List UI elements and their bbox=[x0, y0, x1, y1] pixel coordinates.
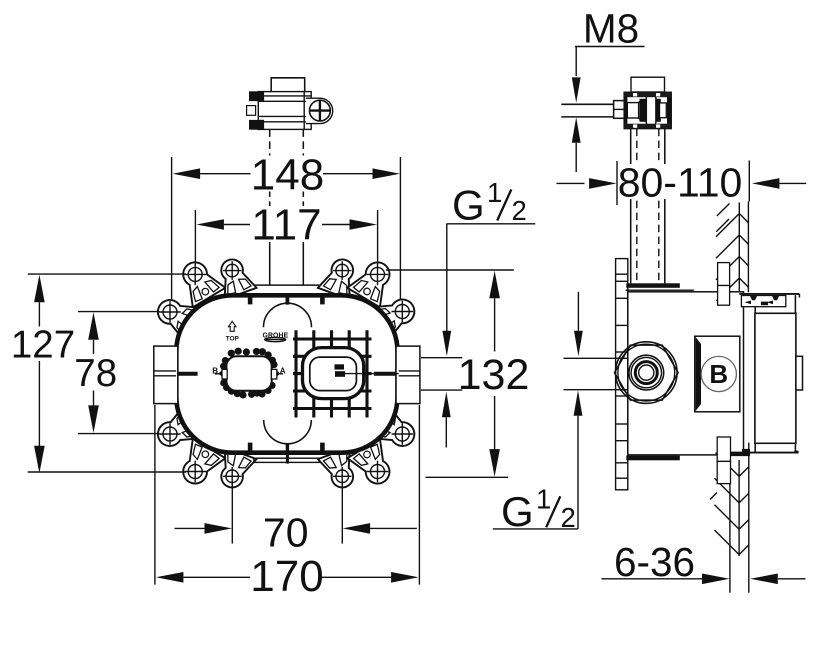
svg-text:B: B bbox=[709, 359, 728, 389]
svg-text:1: 1 bbox=[487, 177, 502, 208]
front housing notch bbox=[796, 356, 803, 390]
bracket above clamp bbox=[631, 77, 665, 92]
clamp screw phillips head bbox=[310, 100, 331, 121]
svg-text:TOP: TOP bbox=[226, 336, 240, 343]
SIDEVIEW bbox=[561, 77, 802, 593]
tile grid vertical lines bbox=[294, 330, 297, 417]
mounting tab bottom-left inner bbox=[212, 447, 256, 492]
gear opening bumps bbox=[220, 348, 278, 399]
screw hole crosshair right upper bbox=[392, 301, 414, 323]
rear mounting plate bbox=[616, 259, 628, 490]
svg-text:70: 70 bbox=[263, 509, 309, 555]
front housing top edge bbox=[739, 293, 799, 295]
left port bbox=[154, 346, 178, 404]
dimension 117 bbox=[194, 210, 196, 265]
gear opening body bbox=[226, 356, 271, 391]
svg-text:2: 2 bbox=[512, 195, 527, 226]
vertical pipe to housing bbox=[630, 129, 632, 284]
dimension 80-110 extension lines bbox=[616, 161, 618, 205]
gear left tab bbox=[215, 373, 227, 375]
wall top clamp blocks bbox=[718, 263, 730, 286]
svg-text:G: G bbox=[501, 488, 534, 535]
mounting tab left upper side bbox=[150, 290, 202, 342]
front housing bottom edge bbox=[730, 452, 798, 454]
dimension 170 bbox=[156, 572, 184, 583]
DIMSRIGHT bbox=[493, 6, 806, 586]
svg-text:127: 127 bbox=[11, 324, 75, 367]
mounting tab top-left inner bbox=[212, 254, 256, 299]
top connector bar bbox=[254, 284, 319, 286]
dimension 132 bbox=[489, 271, 500, 299]
mounting tab bottom-right inner bbox=[318, 447, 362, 492]
svg-text:80-110: 80-110 bbox=[618, 160, 743, 206]
tile grid horizontal lines bbox=[293, 337, 372, 340]
dimension 132 extension lines bbox=[386, 269, 514, 271]
mounting tab right lower side bbox=[370, 405, 422, 457]
screw hole crosshair left upper bbox=[159, 301, 181, 323]
screw hole crosshair bottom-left upright bbox=[184, 461, 206, 483]
gasket outer ring bbox=[303, 348, 364, 399]
front housing box bbox=[755, 313, 796, 443]
centerline tick top right bbox=[320, 294, 325, 304]
gasket inner ring bbox=[310, 357, 357, 391]
M8 threaded rod bbox=[561, 103, 616, 105]
dimension 6-36 bbox=[602, 578, 703, 580]
screw hole crosshair bottom-right inner bbox=[333, 467, 352, 486]
housing bottom edge through wall bbox=[730, 453, 750, 456]
mounting tab bottom-right upright bbox=[347, 439, 400, 492]
mounting tab bottom-left upright bbox=[173, 439, 226, 492]
dimension 70 bbox=[175, 527, 215, 529]
housing body side view bbox=[628, 292, 744, 455]
mounting tab top-right upright bbox=[347, 254, 400, 307]
screw hole crosshair right lower bbox=[392, 423, 414, 445]
knockout arc top bbox=[264, 303, 312, 327]
screw hole crosshair bottom-left inner bbox=[223, 467, 242, 486]
mounting tab right upper side bbox=[370, 289, 422, 341]
svg-text:B: B bbox=[212, 366, 218, 375]
leader arrows side port bbox=[577, 292, 579, 331]
svg-text:G: G bbox=[452, 181, 485, 228]
screw hole crosshair top-left upright bbox=[184, 264, 206, 286]
TOP arrow symbol bbox=[228, 321, 236, 331]
leader M8 bbox=[575, 46, 645, 48]
mounting tab left lower side bbox=[150, 405, 202, 457]
B label circle bbox=[701, 356, 736, 391]
svg-text:117: 117 bbox=[251, 200, 321, 249]
wall bottom hatched bbox=[710, 443, 749, 593]
rod hex nut bbox=[614, 101, 625, 119]
centerline tick top left bbox=[248, 294, 253, 304]
clamp hinge left bbox=[249, 91, 259, 101]
right port bbox=[396, 346, 420, 404]
svg-text:A: A bbox=[280, 366, 286, 375]
centerline tick top center bbox=[285, 295, 289, 305]
pipe stub above clamp bbox=[271, 78, 305, 92]
svg-text:6-36: 6-36 bbox=[614, 539, 695, 585]
valve glyph bbox=[335, 364, 345, 369]
wall top hatched bbox=[716, 202, 748, 301]
pipe dashed lines to housing bbox=[269, 129, 271, 237]
svg-text:170: 170 bbox=[250, 552, 323, 601]
svg-text:148: 148 bbox=[251, 151, 324, 200]
pipe clamp front view body bbox=[258, 92, 311, 130]
side port thread lines bbox=[564, 357, 618, 359]
mounting tab top-left upright bbox=[173, 254, 226, 307]
screw hole crosshair top-left inner bbox=[223, 261, 242, 280]
centerline tick bottom center bbox=[286, 443, 289, 452]
hex inlet nut bbox=[616, 342, 678, 404]
knockout arc bottom bbox=[264, 420, 312, 444]
M8 pipe clamp body bbox=[624, 92, 671, 128]
screw hole crosshair top-right upright bbox=[367, 264, 389, 286]
leader G 1/2 bottom bbox=[493, 528, 578, 530]
bottom bracket rail bbox=[626, 456, 680, 461]
front port thread lines bbox=[421, 357, 462, 359]
dimension 148 bbox=[171, 157, 173, 300]
mounting tab top-right inner bbox=[318, 254, 362, 299]
svg-text:1: 1 bbox=[536, 484, 551, 515]
dimension 70 extension lines bbox=[231, 484, 233, 544]
dimension 170 extension lines bbox=[154, 405, 156, 585]
centerline tick bottom through bars bbox=[286, 455, 289, 464]
leader G 1/2 top bbox=[447, 223, 536, 225]
svg-text:78: 78 bbox=[74, 352, 117, 395]
front fixing plate top bbox=[741, 296, 785, 307]
dimension 127 bbox=[34, 275, 45, 303]
top bracket rail bbox=[626, 283, 680, 288]
dimension 78 extension lines bbox=[78, 311, 160, 313]
gear right tab bbox=[271, 373, 283, 375]
oval housing body bbox=[176, 295, 397, 452]
centerline tick bottom sides bbox=[248, 443, 253, 453]
dimension 80-110 bbox=[557, 182, 585, 184]
valve cartridge panel bbox=[695, 336, 740, 412]
centerline tick right edge bbox=[374, 372, 399, 376]
bottom connector bar bbox=[254, 458, 319, 462]
dimension 78 bbox=[88, 312, 99, 340]
screw hole crosshair bottom-right upright bbox=[367, 461, 389, 483]
centerline tick left edge bbox=[172, 372, 197, 376]
screw hole crosshair left lower bbox=[159, 423, 181, 445]
svg-text:132: 132 bbox=[458, 351, 530, 399]
clamp screw housing bbox=[306, 98, 333, 123]
screw hole crosshair top-right inner bbox=[333, 261, 352, 280]
dimension 127 extension lines bbox=[28, 273, 186, 275]
wall bottom clamp blocks bbox=[717, 437, 730, 461]
svg-text:M8: M8 bbox=[583, 6, 639, 52]
